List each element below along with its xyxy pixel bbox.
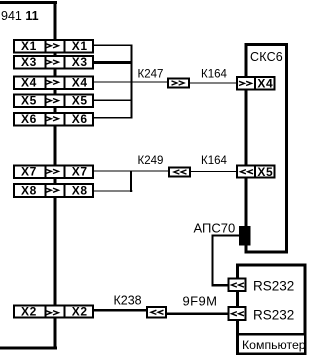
- svg-text:X3: X3: [21, 55, 37, 69]
- wire K249 to SKS6 X5: [190, 171, 236, 172]
- svg-text:X2: X2: [21, 304, 37, 318]
- wire X6: [94, 117, 133, 118]
- svg-text:Компьютер: Компьютер: [242, 338, 306, 352]
- connector APS70 (filled): [239, 226, 251, 246]
- svg-text:АПС70: АПС70: [194, 221, 236, 236]
- svg-text:X8: X8: [72, 183, 88, 197]
- connector row X5: [14, 94, 93, 109]
- svg-text:941 11: 941 11: [1, 9, 39, 23]
- svg-text:X8: X8: [21, 183, 37, 197]
- connector row X6: [14, 112, 93, 127]
- svg-text:К247: К247: [138, 69, 164, 81]
- unit 941 11 boundary: [0, 1, 57, 350]
- connector row X2: [14, 305, 93, 319]
- wire X2 to K238: [94, 309, 146, 311]
- svg-text:К164: К164: [201, 69, 227, 81]
- connector row X7: [14, 165, 93, 180]
- svg-text:X5: X5: [72, 94, 88, 108]
- wire X8: [94, 190, 133, 191]
- svg-text:X6: X6: [72, 112, 88, 126]
- svg-text:X1: X1: [21, 39, 37, 53]
- wire K238 to RS232: [167, 312, 228, 314]
- inline connector K249: [169, 168, 190, 177]
- svg-text:X4: X4: [21, 75, 37, 89]
- connector RS232 upper: [229, 279, 246, 292]
- connector row X4: [14, 75, 93, 90]
- wire X4 to K247: [94, 81, 168, 82]
- bus node upper: [130, 45, 132, 119]
- connector SKS6 X5: [237, 165, 275, 179]
- svg-text:RS232: RS232: [253, 279, 294, 294]
- box Computer: [237, 265, 305, 354]
- svg-text:X4: X4: [257, 77, 273, 91]
- wire X1: [94, 45, 133, 46]
- svg-text:К238: К238: [114, 293, 142, 307]
- inline connector K247: [168, 79, 189, 88]
- bus node middle: [130, 170, 132, 192]
- wire APS70 to RS232: [212, 235, 240, 287]
- box SKS6: [246, 44, 287, 252]
- svg-text:X3: X3: [72, 55, 88, 69]
- svg-text:К249: К249: [138, 155, 164, 167]
- svg-text:X4: X4: [72, 75, 88, 89]
- svg-text:X5: X5: [21, 94, 37, 108]
- inline connector K238: [147, 307, 166, 318]
- label box Computer: [238, 334, 306, 353]
- svg-text:X7: X7: [72, 165, 88, 179]
- connector row X8: [14, 183, 93, 198]
- svg-text:X6: X6: [21, 112, 37, 126]
- connector RS232 lower: [229, 307, 246, 320]
- svg-text:X1: X1: [72, 39, 88, 53]
- svg-text:X7: X7: [21, 165, 37, 179]
- svg-text:СКС6: СКС6: [250, 50, 283, 64]
- svg-text:К164: К164: [201, 155, 227, 167]
- connector row X1: [14, 39, 93, 54]
- wire X7 to K249: [94, 170, 169, 171]
- wire X5: [94, 100, 133, 101]
- svg-text:9F9M: 9F9M: [183, 293, 218, 308]
- wire K247 to SKS6 X4: [189, 82, 237, 83]
- svg-text:X2: X2: [72, 304, 88, 318]
- connector row X3: [14, 55, 93, 70]
- svg-text:X5: X5: [257, 165, 273, 179]
- wire X3 (thick): [94, 61, 133, 64]
- svg-text:RS232: RS232: [253, 307, 294, 322]
- connector SKS6 X4: [237, 76, 275, 91]
